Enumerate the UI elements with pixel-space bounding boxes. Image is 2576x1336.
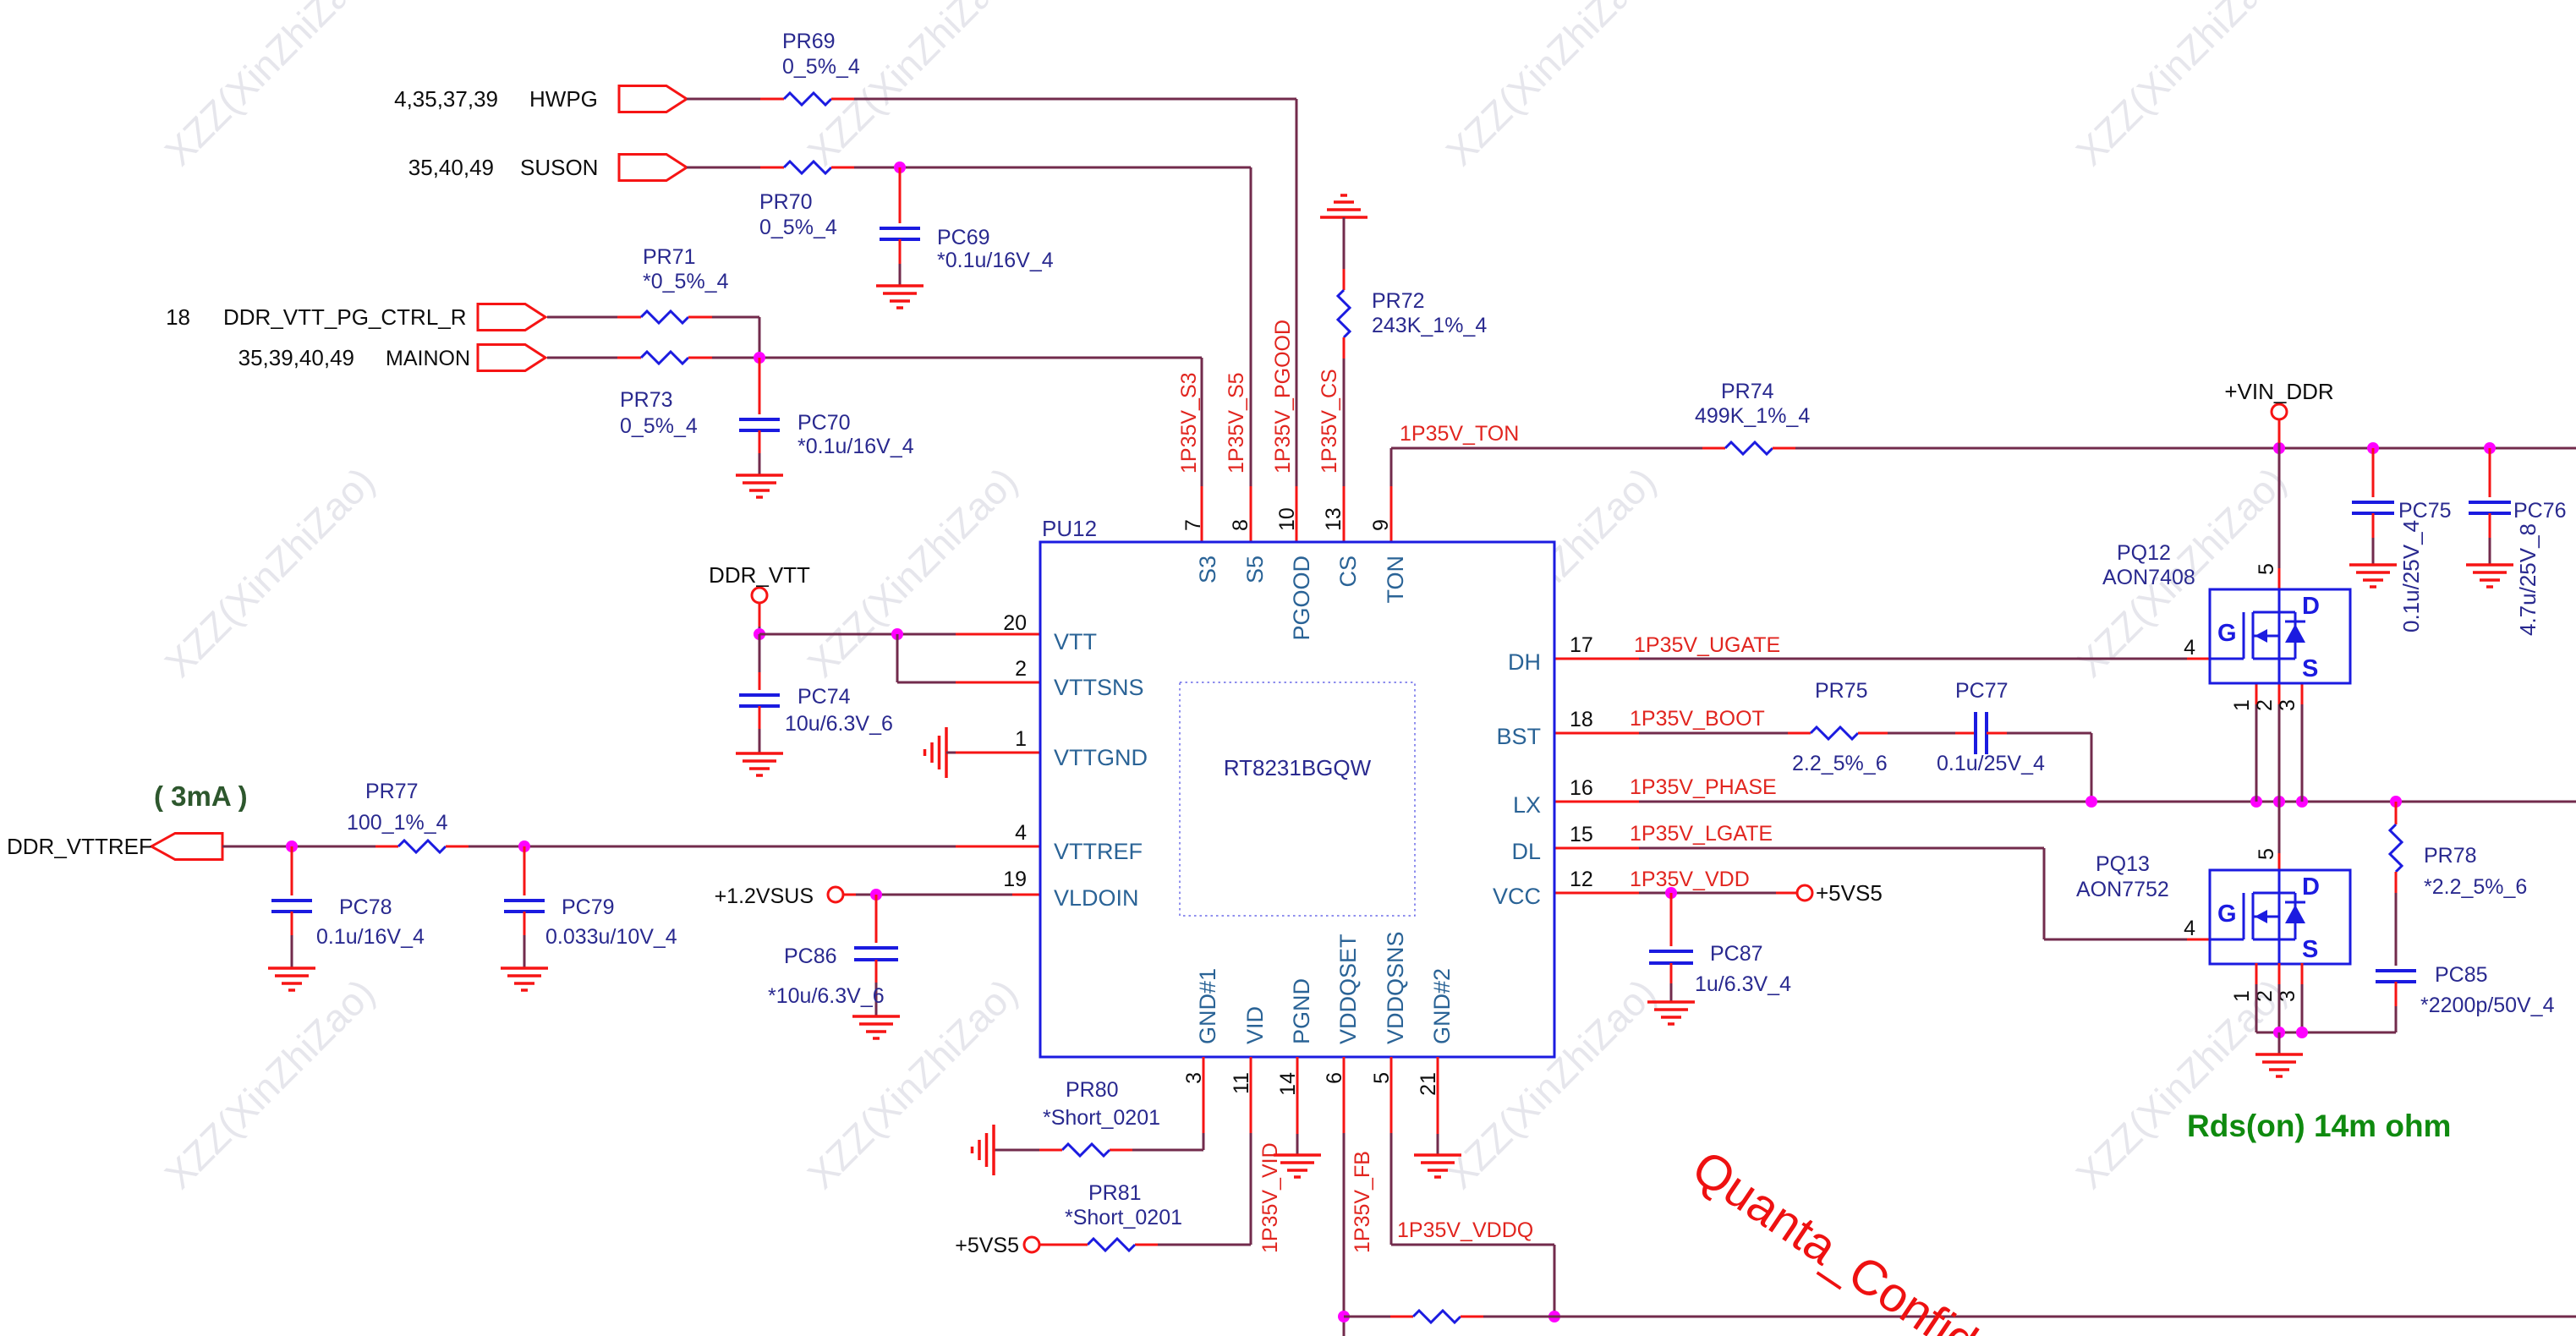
svg-text:*0.1u/16V_4: *0.1u/16V_4 [797,435,914,458]
svg-text:PR77: PR77 [365,780,419,803]
net label 1P35V_VDD [1630,868,1750,891]
svg-text:13: 13 [1322,507,1346,531]
svg-text:+5VS5: +5VS5 [955,1234,1019,1257]
label +1.2VSUS [715,884,814,908]
wire net 1P35V_PGOOD horizontal [854,98,1296,101]
note Rds(on) 14m ohm [2187,1109,2451,1143]
svg-text:PU12: PU12 [1042,516,1097,541]
ground at PC75 [2349,565,2397,587]
pin 6 VDDQSET name [1323,934,1361,1083]
label page refs SUSON [408,155,599,180]
ground at PC74 [736,753,783,775]
label +VIN_DDR [2224,379,2333,404]
svg-text:5: 5 [2255,848,2278,860]
svg-text:20: 20 [1003,611,1027,635]
svg-text:0.1u/25V_4: 0.1u/25V_4 [1937,752,2045,775]
svg-text:PC69: PC69 [937,226,990,249]
svg-text:PGND: PGND [1289,978,1314,1044]
wire PQ12 source pins to PHASE [2256,683,2302,802]
svg-text:MAINON: MAINON [386,347,470,370]
label PR69 value [782,30,860,79]
svg-text:VDDQSNS: VDDQSNS [1383,931,1408,1044]
capacitor PC76 [2469,448,2511,565]
capacitor PC85 [2376,971,2416,1032]
capacitor PC78 [271,846,312,968]
ground (sideways) at VTTGND pin 1 [925,727,947,778]
junction SUSON/PC69 [894,162,906,173]
pin 8 S5 name [1229,519,1268,583]
label PR80 value [1043,1078,1160,1130]
capacitor PC79 [504,846,545,968]
ground at PC69 [876,286,924,308]
svg-text:1P35V_PHASE: 1P35V_PHASE [1630,775,1777,799]
connector DDR_VTTREF (output port) [151,834,222,860]
label PC78 value [316,895,425,949]
svg-text:PR75: PR75 [1815,679,1868,703]
svg-text:SUSON: SUSON [520,155,598,180]
ground at PC87 [1647,1002,1695,1024]
net label 1P35V_CS [1318,369,1341,474]
net label 1P35V_PGOOD [1271,320,1295,474]
svg-text:7: 7 [1181,519,1205,531]
label page refs HWPG [394,86,598,112]
svg-text:1P35V_UGATE: 1P35V_UGATE [1634,633,1780,657]
wire net 1P35V_BOOT from pin 18 [1554,732,1788,735]
wire DDR_VTTREF to PR77 [222,846,375,848]
net label 1P35V_VDDQ [1397,1218,1533,1242]
junction PQ12 pin2 [2273,796,2285,808]
svg-text:4,35,37,39: 4,35,37,39 [394,86,498,112]
svg-text:S3: S3 [1195,556,1220,583]
ground at PGND [1274,1155,1321,1177]
wire PHASE to PQ13 drain pin 5 [2278,802,2281,870]
svg-text:1P35V_FB: 1P35V_FB [1351,1151,1374,1253]
svg-text:VLDOIN: VLDOIN [1054,885,1139,911]
junction PC75 [2367,442,2379,454]
pin 1 2 3 labels PQ12 source [2230,699,2299,711]
svg-text:D: D [2302,873,2320,901]
svg-text:9: 9 [1369,519,1393,531]
junction DDR_VTT/PC74 [754,628,765,640]
ground at PC86 [852,1016,900,1038]
wire net 1P35V_S3 horizontal [712,357,1202,359]
svg-text:100_1%_4: 100_1%_4 [347,811,448,835]
note Quanta_Confidential watermark [1683,1140,1987,1336]
pin 7 S3 name [1181,519,1220,583]
svg-text:AON7408: AON7408 [2102,566,2195,589]
label PQ13 AON7752 [2076,852,2169,901]
svg-text:PC85: PC85 [2435,963,2488,987]
pin 15 DL stub [1511,823,1592,864]
svg-text:PC86: PC86 [784,945,837,968]
svg-text:PC78: PC78 [339,895,392,919]
label +5VS5 bottom [955,1234,1019,1257]
label PR75 value [1792,679,1888,775]
svg-text:TON: TON [1383,556,1408,604]
svg-text:VTTGND: VTTGND [1054,745,1148,770]
label PC79 value [545,895,677,949]
svg-text:RT8231BGQW: RT8231BGQW [1224,755,1372,780]
svg-text:DDR_VTT_PG_CTRL_R: DDR_VTT_PG_CTRL_R [223,304,467,330]
junction PC79 [518,840,530,852]
wire VTTGND to pin 1 [946,752,1040,754]
svg-text:DH: DH [1508,649,1541,675]
resistor PR80 [1039,1144,1132,1156]
junction FB rail left [1338,1311,1350,1322]
label RT8231BGQW [1224,755,1372,780]
wire net 1P35V_TON horizontal to PR74 [1391,447,1702,450]
svg-text:PR80: PR80 [1066,1078,1119,1102]
net label 1P35V_FB [1351,1151,1374,1253]
label +5VS5 right [1816,880,1883,906]
resistor PR72 [1338,217,1350,359]
wire net 1P35V_PGOOD vertical to pin 10 [1296,99,1298,542]
wire net 1P35V_FB from pin 6 [1343,1057,1346,1336]
label PC86 value [768,945,885,1008]
svg-text:PQ13: PQ13 [2096,852,2150,876]
svg-text:Rds(on) 14m ohm: Rds(on) 14m ohm [2187,1109,2451,1143]
capacitor PC86 [854,895,898,1016]
ground at GND#2 [1414,1155,1461,1177]
svg-text:*0_5%_4: *0_5%_4 [643,270,729,293]
svg-text:1P35V_VDDQ: 1P35V_VDDQ [1397,1218,1533,1242]
ground (inverted) at PR72 top [1320,195,1367,217]
svg-text:+5VS5: +5VS5 [1816,880,1883,906]
capacitor PC74 [739,634,780,753]
wire net 1P35V_TON vertical to pin 9 [1390,448,1393,542]
svg-text:AON7752: AON7752 [2076,878,2169,901]
svg-text:243K_1%_4: 243K_1%_4 [1372,314,1487,337]
net label 1P35V_VID [1258,1142,1282,1253]
pin 12 VCC stub [1493,868,1593,909]
svg-text:1: 1 [1015,727,1027,751]
resistor PR74 [1702,442,1795,454]
svg-text:1P35V_S3: 1P35V_S3 [1177,372,1201,474]
svg-text:1P35V_VDD: 1P35V_VDD [1630,868,1750,891]
label PC70 value [797,411,914,458]
svg-text:GND#2: GND#2 [1429,968,1455,1044]
resistor (feedback, bottom rail) [1344,1311,1483,1322]
wire PR75 to PC77 [1888,732,1955,735]
net label 1P35V_S5 [1225,372,1248,474]
svg-text:G: G [2217,620,2237,647]
svg-text:0.1u/16V_4: 0.1u/16V_4 [316,925,425,949]
svg-text:PC76: PC76 [2513,499,2567,523]
svg-text:0_5%_4: 0_5%_4 [782,55,860,79]
label PR77 value [347,780,448,835]
label PC85 value [2420,963,2555,1017]
pin 20 VTT stub [1003,611,1097,654]
svg-text:17: 17 [1570,633,1593,657]
svg-text:PR73: PR73 [620,388,673,412]
svg-text:4: 4 [2184,636,2195,660]
svg-text:PR78: PR78 [2424,844,2477,868]
svg-text:+1.2VSUS: +1.2VSUS [715,884,814,908]
wire net 1P35V_CS vertical to pin 13 [1343,359,1346,542]
resistor PR75 [1788,727,1888,739]
svg-text:PR74: PR74 [1721,380,1774,403]
svg-text:4: 4 [2184,917,2195,940]
junction MAINON/PC70 [754,352,765,364]
svg-text:18: 18 [1570,708,1593,731]
svg-text:PC70: PC70 [797,411,851,435]
resistor PR69 [760,93,854,105]
svg-text:*0.1u/16V_4: *0.1u/16V_4 [937,249,1054,272]
svg-text:+VIN_DDR: +VIN_DDR [2224,379,2333,404]
svg-text:4.7u/25V_8: 4.7u/25V_8 [2515,523,2540,636]
label page refs DDR_VTT_PG_CTRL_R [166,304,466,330]
wire +VIN_DDR to PQ12 drain pin 5 [2278,448,2281,589]
junction PC78 [286,840,298,852]
svg-text:0.1u/25V_4: 0.1u/25V_4 [2398,520,2424,632]
svg-text:PC75: PC75 [2398,499,2452,523]
label DDR_VTTREF [7,834,152,859]
svg-text:3: 3 [2276,699,2299,711]
capacitor PC77 [1955,712,2007,754]
label page refs MAINON [238,345,470,370]
connector MAINON (input port) [478,345,545,371]
pin 14 PGND name [1276,978,1314,1096]
svg-text:0_5%_4: 0_5%_4 [620,414,698,438]
svg-text:8: 8 [1229,519,1252,531]
pin 5 VDDQSNS name [1370,931,1408,1083]
ground at PC76 [2466,565,2513,587]
svg-text:2: 2 [1015,657,1027,681]
pin 16 LX stub [1513,776,1593,818]
pin 3 GND#1 name [1182,968,1220,1084]
junction PC87 [1665,887,1677,899]
label PC87 value [1695,942,1791,996]
svg-text:PR70: PR70 [759,190,813,214]
ground (sideways) at PR80 [973,1125,995,1175]
svg-text:PGOOD: PGOOD [1289,556,1314,641]
capacitor PC87 [1649,893,1693,1002]
wire +1.2VSUS to pin 19 VLDOIN [843,894,1040,896]
svg-text:18: 18 [166,304,190,330]
wire net 1P35V_S3 vertical to pin 7 [1201,358,1203,542]
wire pin 3 GND#1 down [1132,1057,1203,1150]
label PC69 value [937,226,1054,272]
wire DDR_VTT_PG_CTRL_R to PR71 [547,316,617,319]
junction ground rail B [2296,1027,2308,1038]
resistor PR70 [760,162,854,173]
connector DDR_VTT_PG_CTRL_R (input port) [478,304,545,331]
label ( 3mA ) [154,780,248,812]
svg-text:VID: VID [1242,1006,1268,1044]
svg-text:0.033u/10V_4: 0.033u/10V_4 [545,925,677,949]
svg-text:19: 19 [1003,868,1027,891]
junction PQ12 pin3 [2296,796,2308,808]
wire HWPG to PR69 [687,98,760,101]
svg-text:CS: CS [1335,556,1361,588]
power node +1.2VSUS [828,887,843,902]
svg-text:1P35V_S5: 1P35V_S5 [1225,372,1248,474]
junction PC86 [870,889,882,901]
label PR74 value [1695,380,1810,428]
svg-text:1u/6.3V_4: 1u/6.3V_4 [1695,972,1791,996]
junction FB rail right [1548,1311,1560,1322]
svg-text:VCC: VCC [1493,884,1541,909]
svg-text:PC74: PC74 [797,685,851,709]
net label 1P35V_BOOT [1630,707,1765,731]
pin 19 VLDOIN stub [1003,868,1138,911]
pin 5 label PQ13 drain [2255,848,2278,860]
net label 1P35V_LGATE [1630,822,1773,846]
ground at PC70 [736,475,783,497]
svg-text:*2.2_5%_6: *2.2_5%_6 [2424,875,2527,899]
svg-text:BST: BST [1496,724,1541,749]
power node +VIN_DDR [2272,404,2287,448]
svg-text:16: 16 [1570,776,1593,800]
wire PQ13 source pins to ground rail [2256,963,2396,1032]
svg-text:1P35V_VID: 1P35V_VID [1258,1142,1282,1253]
svg-text:PR81: PR81 [1088,1181,1142,1205]
wire DDR_VTT to pin 20 VTT [759,633,1040,636]
svg-text:GND#1: GND#1 [1195,968,1220,1044]
wire net 1P35V_S5 vertical to pin 8 [1250,167,1252,542]
svg-text:1P35V_TON: 1P35V_TON [1400,422,1519,446]
pin 1 VTTGND stub [1015,727,1148,770]
transistor PQ12 AON7408 (N-MOSFET) [2210,589,2350,683]
svg-text:VTTREF: VTTREF [1054,839,1143,864]
wire PR80 to ground [994,1149,1039,1152]
svg-text:PR71: PR71 [643,245,696,269]
wire net 1P35V_VDDQ from pin 5 [1391,1057,1554,1317]
label PC77 value [1937,679,2045,775]
svg-text:( 3mA ): ( 3mA ) [154,780,248,812]
wire pin 21 GND#2 to ground [1437,1057,1439,1155]
junction +VIN_DDR [2273,442,2285,454]
svg-text:35,40,49: 35,40,49 [408,155,494,180]
label PU12 [1042,516,1097,541]
power node +5VS5 (right) [1797,885,1812,901]
resistor PR73 [617,352,712,364]
IC inner dotted box [1180,682,1415,916]
resistor PR81 [1039,1239,1158,1251]
svg-text:*10u/6.3V_6: *10u/6.3V_6 [768,984,885,1008]
IC PU12 RT8231BGQW (body) [1040,542,1554,1057]
svg-text:5: 5 [2255,563,2278,575]
label PR73 value [620,388,698,438]
label DDR_VTT [709,562,810,588]
svg-text:*2200p/50V_4: *2200p/50V_4 [2420,994,2555,1017]
wire PR77 to pin 4 VTTREF [469,846,1040,848]
svg-text:PC77: PC77 [1955,679,2009,703]
svg-text:HWPG: HWPG [529,86,598,112]
pin 17 DH stub [1508,633,1593,675]
svg-text:DL: DL [1511,839,1541,864]
svg-text:S: S [2302,936,2318,963]
capacitor PC69 [880,167,920,286]
svg-text:VDDQSET: VDDQSET [1335,934,1361,1044]
svg-text:PC87: PC87 [1710,942,1763,966]
pin 4 VTTREF stub [1015,821,1143,864]
pin 10 PGOOD name [1275,507,1314,640]
svg-text:DDR_VTT: DDR_VTT [709,562,810,588]
label PR70 value [759,190,837,239]
label PR72 value [1372,289,1487,337]
wire net 1P35V_VDD [1554,892,1798,895]
svg-text:G: G [2217,901,2237,928]
junction PC77/PHASE [2085,796,2097,808]
svg-text:D: D [2302,593,2320,620]
svg-text:*Short_0201: *Short_0201 [1043,1106,1160,1130]
connector HWPG (input port) [619,86,687,112]
capacitor PC75 [2352,448,2394,565]
svg-text:0_5%_4: 0_5%_4 [759,216,837,239]
junction VTT/VTTSNS [891,628,903,640]
resistor PR78 [2390,802,2402,966]
svg-text:1P35V_LGATE: 1P35V_LGATE [1630,822,1773,846]
label PR78 value [2424,844,2527,899]
svg-text:1P35V_PGOOD: 1P35V_PGOOD [1271,320,1295,474]
junction ground rail A [2273,1027,2285,1038]
svg-text:DDR_VTTREF: DDR_VTTREF [7,834,152,859]
svg-text:1P35V_CS: 1P35V_CS [1318,369,1341,474]
wire net 1P35V_VID from pin 11 [1158,1057,1251,1245]
pin 4 label PQ12 gate [2184,636,2195,660]
net label 1P35V_S3 [1177,372,1201,474]
svg-text:10u/6.3V_6: 10u/6.3V_6 [785,712,893,736]
label PR71 value [643,245,729,293]
svg-text:2.2_5%_6: 2.2_5%_6 [1792,752,1888,775]
wire +VIN_DDR rail horizontal [1795,447,2576,450]
svg-text:LX: LX [1513,792,1541,818]
svg-text:2: 2 [2253,699,2277,711]
wire PC77 to PHASE junction [2007,733,2091,802]
svg-text:VTTSNS: VTTSNS [1054,675,1144,700]
wire net 1P35V_S5 horizontal [854,167,1251,169]
wire SUSON to PR70 [687,167,760,169]
svg-text:PC79: PC79 [562,895,615,919]
svg-text:35,39,40,49: 35,39,40,49 [238,345,354,370]
label PC76 value [2513,499,2567,636]
net label 1P35V_TON [1400,422,1519,446]
label PR81 value [1065,1181,1182,1229]
transistor PQ13 AON7752 (N-MOSFET) [2210,870,2350,964]
junction PQ12 pin1 [2250,796,2262,808]
label PC75 value [2398,499,2452,632]
pin 4 label PQ13 gate [2184,917,2195,940]
ground at PQ13 source [2255,1032,2303,1076]
net label 1P35V_PHASE [1630,775,1777,799]
pin 1 2 3 labels PQ13 source [2230,990,2299,1002]
wire net 1P35V_UGATE [1554,658,2210,660]
wire FB rail to right edge [1483,1316,2576,1318]
power node +5VS5 (bottom) [1024,1237,1039,1252]
wire net 1P35V_LGATE [1554,848,2210,939]
wire pin 14 PGND to ground [1296,1057,1299,1155]
svg-text:1: 1 [2230,990,2254,1002]
svg-text:VTT: VTT [1054,629,1097,654]
svg-text:4: 4 [1015,821,1027,845]
pin 18 BST stub [1496,708,1592,749]
pin 11 VID name [1230,1006,1268,1094]
pin 9 TON name [1369,519,1408,603]
svg-text:1P35V_BOOT: 1P35V_BOOT [1630,707,1765,731]
wire PR71 to MAINON junction [712,317,759,358]
net label 1P35V_UGATE [1634,633,1780,657]
ground at PC79 [501,968,548,990]
svg-text:1: 1 [2230,699,2254,711]
ground at PC78 [268,968,315,990]
label PC74 value [785,685,893,736]
svg-text:S5: S5 [1242,556,1268,583]
svg-text:499K_1%_4: 499K_1%_4 [1695,404,1810,428]
pin 2 VTTSNS stub [1015,657,1143,700]
svg-text:S: S [2302,655,2318,682]
capacitor PC70 [739,358,780,475]
